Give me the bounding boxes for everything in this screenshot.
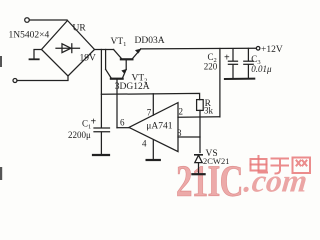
- ground bar under C2 C3: [225, 78, 254, 80]
- wire pin 6 output: [117, 127, 129, 129]
- label +12V: [261, 45, 283, 55]
- label VS: [206, 149, 218, 159]
- label UR: [73, 24, 87, 34]
- label uA741: [146, 122, 172, 132]
- label 0.01u: [251, 64, 272, 74]
- wire pin 3 non-inverting input: [178, 136, 200, 138]
- zener diode VS: [195, 155, 202, 174]
- svg-text:0.01μ: 0.01μ: [251, 64, 272, 74]
- svg-text:DD03A: DD03A: [135, 36, 165, 46]
- resistor R 3k: [197, 100, 204, 111]
- op-amp uA741: [129, 103, 178, 152]
- AC input stub left: [30, 50, 42, 60]
- wire +12V rail: [141, 47, 256, 50]
- label C2 plus: [208, 52, 231, 64]
- label C3: [251, 54, 260, 66]
- svg-text:3k: 3k: [204, 106, 214, 116]
- svg-text:2CW21: 2CW21: [203, 156, 229, 166]
- svg-text:6: 6: [120, 117, 125, 127]
- bridge rectifier UR: [42, 21, 95, 77]
- svg-text:2: 2: [179, 107, 184, 117]
- svg-text:.com: .com: [242, 163, 309, 199]
- label 2CW21: [203, 156, 229, 166]
- ground under C1: [93, 154, 109, 156]
- terminal +12V: [256, 47, 260, 51]
- pin 4 lead: [152, 140, 154, 159]
- svg-text:3: 3: [177, 128, 182, 138]
- pin 7 lead: [152, 94, 154, 115]
- label R: [205, 99, 212, 109]
- wire top rail to bridge: [29, 19, 67, 21]
- svg-text:UR: UR: [73, 24, 87, 34]
- svg-text:1N5402×4: 1N5402×4: [9, 31, 50, 41]
- terminal input bottom-left: [13, 79, 17, 83]
- svg-text:+12V: +12V: [261, 45, 283, 55]
- ground under zener: [192, 173, 204, 175]
- label pin 3: [177, 128, 182, 138]
- wire R to zener: [199, 110, 201, 152]
- label pin 6: [120, 117, 125, 127]
- capacitor C1 2200u: [94, 50, 110, 154]
- svg-text:7: 7: [147, 107, 152, 117]
- svg-text:+: +: [224, 53, 230, 64]
- label C1 plus: [82, 117, 97, 131]
- 电: [251, 159, 267, 171]
- watermark 21IC.com logo: [176, 156, 310, 206]
- 子: [272, 159, 289, 174]
- label 2200u: [68, 130, 91, 140]
- svg-text:+: +: [91, 117, 97, 128]
- svg-text:2200μ: 2200μ: [68, 130, 91, 140]
- label 1N5402x4: [9, 31, 50, 41]
- label VT2: [132, 74, 148, 85]
- svg-text:VT1: VT1: [111, 37, 127, 48]
- wire 19V distribution line to R: [101, 93, 199, 99]
- svg-text:220: 220: [204, 61, 218, 71]
- label VT1: [111, 37, 127, 48]
- svg-text:μA741: μA741: [146, 122, 172, 132]
- label 3DG12A: [115, 82, 150, 92]
- terminal input top-left: [25, 18, 30, 23]
- capacitor C3 0.01u: [244, 48, 253, 78]
- label DD03A: [135, 36, 165, 46]
- label 220: [204, 61, 218, 71]
- svg-text:4: 4: [142, 138, 147, 148]
- svg-text:19V: 19V: [80, 54, 97, 64]
- wire +12V feedback vertical: [219, 49, 221, 117]
- label pin 2: [179, 107, 184, 117]
- label pin 7: [147, 107, 152, 117]
- svg-text:3DG12A: 3DG12A: [115, 82, 150, 92]
- label pin 4: [142, 138, 147, 148]
- ground under pin 4: [147, 159, 160, 161]
- transistor VT2 3DG12A: [106, 50, 127, 128]
- 网: [293, 158, 311, 174]
- label 3k: [204, 106, 214, 116]
- label 19V: [80, 54, 97, 64]
- wire bottom input to bridge: [17, 76, 68, 81]
- diode inside bridge: [56, 44, 80, 53]
- wire pin 2 inverting input: [178, 116, 220, 118]
- transistor VT1 DD03A: [114, 49, 141, 69]
- scan artifacts left edge: [0, 56, 2, 180]
- capacitor C2 220u: [228, 49, 237, 79]
- wire 19V rail: [95, 49, 114, 51]
